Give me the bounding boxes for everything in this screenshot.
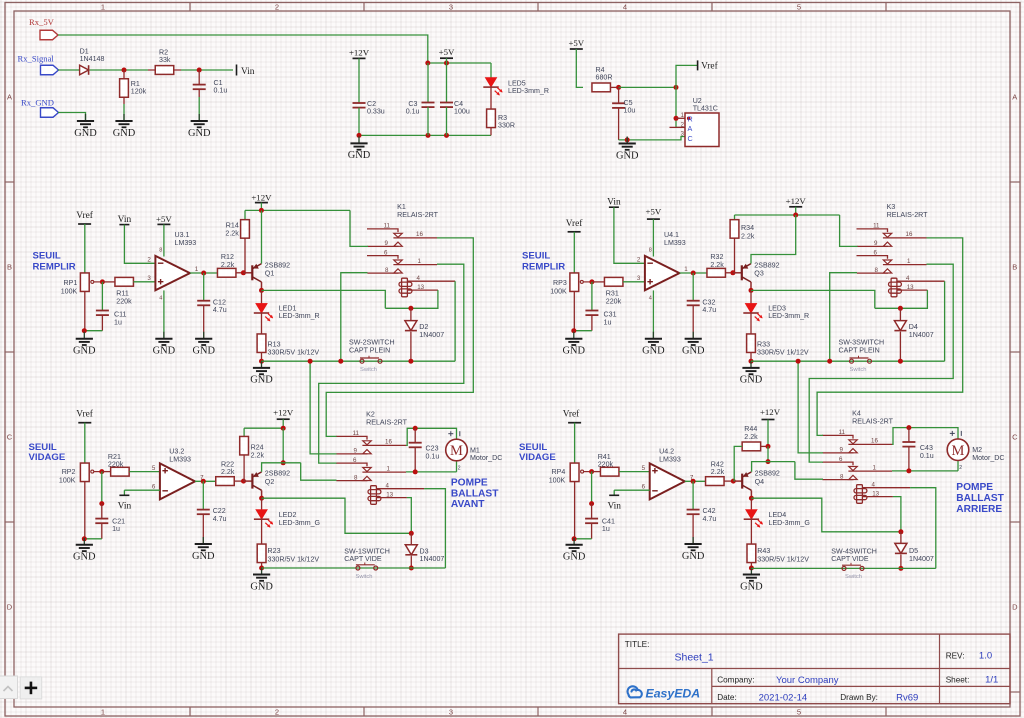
svg-text:1N4007: 1N4007: [909, 331, 934, 339]
wire switch line to K2 pin 9: [310, 361, 336, 454]
wire D1 to R1 node: [90, 69, 148, 71]
svg-text:1: 1: [101, 708, 105, 717]
svg-text:Vin: Vin: [241, 67, 255, 77]
UI panel toggle button: [0, 676, 18, 699]
wire K3 pin 8 to switch line: [830, 273, 857, 362]
LED LED1 LED-3mm_R: [261, 290, 263, 303]
svg-text:1/1: 1/1: [985, 675, 998, 686]
svg-text:D: D: [7, 603, 13, 612]
junction at U2 pin 1: [674, 116, 679, 121]
potentiometer RP3 100K: [570, 273, 579, 292]
wire Q1 collector to coil: [262, 290, 386, 308]
svg-text:A: A: [1012, 93, 1017, 102]
svg-text:2.2k: 2.2k: [744, 433, 758, 441]
wire Vref to RP4: [574, 423, 576, 464]
svg-text:220k: 220k: [116, 298, 132, 306]
+12V rail: [244, 427, 283, 429]
svg-text:EasyEDA: EasyEDA: [646, 686, 701, 700]
wire Vref to RP3: [573, 232, 575, 273]
power flag +5V (TL431): [570, 48, 583, 50]
svg-text:Vin: Vin: [607, 502, 621, 512]
wire K3 pin 16 to K4 pin 11: [817, 238, 963, 436]
wire right switch line to K4 pin 9: [798, 361, 823, 453]
switch line: [751, 360, 945, 362]
svg-text:VIDAGE: VIDAGE: [519, 452, 556, 463]
ground C42: [692, 537, 694, 544]
relay K3 contact 2: [857, 256, 888, 259]
svg-text:3: 3: [449, 708, 453, 717]
wire emitter to +12V: [261, 210, 263, 263]
junction wiper: [589, 469, 594, 474]
svg-text:8: 8: [385, 267, 389, 274]
svg-text:U4.2: U4.2: [659, 448, 674, 456]
svg-text:8: 8: [875, 267, 879, 274]
svg-text:R31: R31: [606, 290, 619, 298]
ground for Rx_GND: [85, 114, 87, 121]
svg-text:4.7u: 4.7u: [703, 515, 717, 523]
svg-text:13: 13: [907, 284, 914, 291]
svg-text:R32: R32: [710, 253, 723, 261]
svg-text:REV:: REV:: [946, 651, 965, 660]
wire Q4 collector to coil: [751, 498, 901, 532]
svg-text:Q4: Q4: [755, 478, 765, 486]
ground of power section: [358, 136, 360, 143]
wire K2 coil pin 13 down: [407, 498, 411, 534]
junction pin8-switch: [338, 359, 343, 364]
svg-text:13: 13: [417, 284, 424, 291]
junction C43 bottom: [906, 468, 911, 473]
diode D5 1N4007: [900, 532, 902, 544]
svg-text:100K: 100K: [61, 287, 78, 295]
resistor R43: [750, 519, 752, 544]
op-amp U4.1 LM393: [645, 256, 680, 290]
ground R33: [750, 361, 752, 368]
title block: [619, 634, 1010, 704]
svg-text:GND: GND: [73, 552, 96, 563]
bottom switch line (SW-4): [751, 567, 935, 569]
svg-text:LED2: LED2: [279, 511, 297, 519]
wire K4 coil pin 4 to switch line: [910, 488, 936, 569]
junction collector: [750, 490, 752, 498]
svg-text:Motor_DC: Motor_DC: [972, 454, 1004, 462]
svg-text:1N4007: 1N4007: [419, 331, 444, 339]
svg-text:0.33u: 0.33u: [367, 108, 385, 116]
wire op-amp output: [190, 272, 218, 274]
wire Rx_GND to ground: [58, 113, 86, 122]
motor M2 Motor_DC: [947, 439, 969, 461]
relay K2 contact 2: [336, 463, 367, 466]
svg-text:C41: C41: [602, 517, 615, 525]
svg-text:16: 16: [871, 438, 878, 445]
capacitor C11 1u: [101, 282, 103, 311]
svg-text:C11: C11: [114, 311, 127, 319]
svg-text:330R: 330R: [498, 122, 515, 130]
svg-text:2.2k: 2.2k: [741, 232, 755, 240]
svg-text:Date:: Date:: [717, 693, 737, 702]
svg-text:R12: R12: [221, 253, 234, 261]
svg-text:16: 16: [385, 439, 392, 446]
junction wiper: [99, 469, 104, 474]
svg-text:Rv69: Rv69: [896, 692, 918, 703]
UI zoom button +: [20, 677, 42, 699]
resistor R33: [750, 313, 752, 334]
svg-text:GND: GND: [740, 375, 763, 386]
wire emitter node: [767, 446, 769, 461]
svg-text:8: 8: [354, 475, 358, 482]
wire Rx_Signal to D1: [58, 69, 80, 71]
ground RP1: [83, 332, 85, 339]
svg-text:LED-3mm_R: LED-3mm_R: [508, 87, 549, 95]
resistor R14 2.2k: [244, 210, 246, 219]
svg-text:C43: C43: [920, 444, 933, 452]
svg-text:16: 16: [416, 231, 423, 238]
svg-text:5: 5: [152, 465, 156, 472]
svg-text:SW-1SWITCH: SW-1SWITCH: [344, 547, 390, 555]
svg-text:4: 4: [649, 296, 652, 302]
svg-text:R14: R14: [226, 221, 239, 229]
svg-text:+12V: +12V: [251, 193, 272, 203]
svg-text:2SB892: 2SB892: [755, 470, 780, 478]
junction R bottom: [749, 359, 754, 364]
svg-text:Rx_GND: Rx_GND: [21, 98, 54, 108]
capacitor C42 4.7u: [692, 481, 694, 509]
diode D1 1N4148: [80, 65, 89, 75]
svg-text:+5V: +5V: [568, 38, 584, 48]
junction wiper: [589, 279, 594, 284]
svg-text:2: 2: [959, 465, 962, 471]
svg-text:4: 4: [623, 3, 627, 12]
svg-text:ARRIERE: ARRIERE: [956, 504, 1002, 515]
svg-text:1: 1: [387, 466, 391, 473]
svg-text:R44: R44: [744, 425, 757, 433]
+12V rail: [735, 214, 840, 216]
svg-text:3: 3: [449, 3, 453, 12]
capacitor C41 1u: [591, 472, 593, 504]
svg-text:GND: GND: [740, 581, 763, 592]
wire RP3 bottom to ground: [573, 292, 575, 331]
svg-text:C23: C23: [426, 445, 439, 453]
bottom switch line (SW-1): [262, 567, 446, 569]
wire K4 pin 16 to motor M2 plus: [892, 428, 958, 445]
wire K3 coil pin 4 to switch line: [944, 281, 946, 361]
ground R13: [261, 361, 263, 368]
relay K4 contact 1: [822, 435, 853, 438]
svg-text:GND: GND: [192, 551, 215, 562]
svg-text:RELAIS-2RT: RELAIS-2RT: [852, 418, 894, 426]
wire Vin to op-amp pin 2: [614, 207, 645, 263]
junction pin8-switch right: [827, 359, 832, 364]
resistor R3 330R: [490, 87, 492, 109]
capacitor C1 0.1u: [198, 70, 200, 85]
svg-text:RELAIS-2RT: RELAIS-2RT: [887, 211, 929, 219]
junction switchline: [308, 359, 313, 364]
svg-text:LED-3mm_G: LED-3mm_G: [769, 519, 810, 527]
resistor R31 220k: [592, 281, 605, 283]
IC U2 TL431C: [685, 113, 719, 147]
svg-text:LED-3mm_R: LED-3mm_R: [279, 312, 320, 320]
svg-text:U3.1: U3.1: [175, 231, 190, 239]
resistor R42 2.2k: [706, 477, 725, 486]
svg-text:B: B: [7, 263, 12, 272]
ground C12: [203, 332, 205, 339]
svg-text:M: M: [450, 443, 463, 459]
junction collector: [749, 288, 754, 293]
resistor R44 2.2k (horizontal): [742, 442, 761, 451]
wire +5V to pin 8: [652, 219, 654, 256]
wire Vref to RP1: [84, 224, 86, 273]
svg-text:4: 4: [386, 483, 390, 490]
svg-text:GND: GND: [563, 346, 586, 357]
svg-text:5: 5: [797, 708, 801, 717]
resistor R23: [261, 519, 263, 544]
svg-text:LM393: LM393: [664, 239, 686, 247]
svg-text:GND: GND: [348, 150, 371, 161]
net flag Vin (U4.2): [614, 489, 650, 491]
svg-text:Company:: Company:: [717, 675, 754, 684]
svg-text:VIDAGE: VIDAGE: [29, 452, 66, 463]
svg-text:Motor_DC: Motor_DC: [470, 454, 502, 462]
ground TL431: [626, 137, 628, 144]
wire K1 pin 1 to K2 pin 6: [319, 264, 464, 463]
resistor R21 220k: [102, 471, 111, 473]
switch SW-2SWITCH CAPT PLEIN: [360, 359, 364, 363]
svg-text:2: 2: [637, 257, 641, 264]
wire K1 coil pin 13 down: [385, 290, 438, 308]
capacitor C23 0.1u: [414, 428, 416, 442]
svg-text:BALLAST: BALLAST: [956, 493, 1004, 504]
svg-text:R11: R11: [116, 290, 129, 298]
svg-text:4: 4: [906, 275, 910, 282]
svg-text:+5V: +5V: [439, 47, 455, 57]
svg-text:C22: C22: [213, 507, 226, 515]
svg-text:U3.2: U3.2: [169, 448, 184, 456]
svg-text:C31: C31: [604, 311, 617, 319]
ground op-amp pin 4: [652, 290, 654, 338]
capacitor C21 1u: [101, 472, 103, 504]
svg-text:3: 3: [147, 275, 151, 282]
ground C32: [692, 332, 694, 339]
resistor R2 33k: [148, 69, 181, 71]
wire RP4 bottom to ground: [574, 482, 576, 539]
op-amp U3.2 LM393: [160, 463, 195, 499]
svg-text:CAPT VIDE: CAPT VIDE: [831, 555, 869, 563]
svg-text:1: 1: [873, 465, 877, 472]
capacitor C31 1u: [591, 282, 593, 311]
svg-text:Rx_5V: Rx_5V: [29, 17, 55, 27]
svg-text:2.2k: 2.2k: [711, 468, 725, 476]
svg-text:9: 9: [874, 240, 878, 247]
wire collector: [261, 282, 263, 290]
junction base: [730, 270, 735, 275]
svg-text:1N4007: 1N4007: [909, 555, 934, 563]
svg-text:GND: GND: [563, 552, 586, 563]
svg-text:C: C: [688, 134, 693, 143]
svg-text:R33: R33: [757, 340, 770, 348]
svg-text:100K: 100K: [550, 287, 567, 295]
svg-text:0.1u: 0.1u: [920, 452, 934, 460]
wire emitter to +12V: [751, 215, 796, 264]
wire +5V to pin 8: [163, 224, 165, 256]
junction right switchline: [796, 359, 801, 364]
svg-text:100K: 100K: [59, 476, 76, 484]
svg-text:Switch: Switch: [355, 574, 372, 580]
junction D4 cathode: [898, 359, 903, 364]
wire node to Vref flag: [676, 65, 698, 87]
wire RP1 bottom to ground: [84, 292, 86, 331]
svg-text:SW-4SWITCH: SW-4SWITCH: [831, 547, 877, 555]
svg-text:CAPT VIDE: CAPT VIDE: [344, 555, 382, 563]
capacitor C4 100u: [446, 63, 448, 103]
svg-text:4: 4: [159, 296, 162, 302]
resistor R24 2.2k: [243, 428, 245, 436]
wire TL431 node down to pins: [676, 87, 681, 127]
svg-text:Vref: Vref: [76, 408, 93, 419]
net flag Vref: [697, 60, 699, 70]
svg-text:Vin: Vin: [118, 215, 132, 225]
svg-text:2SB892: 2SB892: [754, 261, 779, 269]
svg-text:SEUIL: SEUIL: [522, 250, 550, 261]
svg-text:C42: C42: [703, 507, 716, 515]
svg-text:Vref: Vref: [566, 218, 583, 229]
svg-text:+5V: +5V: [646, 207, 662, 217]
svg-text:6: 6: [839, 456, 843, 463]
wire +12V rail to K3 pin 9: [840, 215, 858, 246]
wire Q4 emitter node to K4 pin 8: [795, 462, 823, 480]
svg-text:RP4: RP4: [551, 468, 565, 476]
op-amp U3.1 LM393: [155, 256, 190, 290]
svg-text:POMPE: POMPE: [956, 482, 993, 493]
wire op-amp output: [195, 480, 216, 482]
junction base: [241, 270, 246, 275]
+12V rail: [245, 209, 350, 211]
svg-text:GND: GND: [153, 346, 176, 357]
svg-text:1N4007: 1N4007: [420, 555, 445, 563]
svg-text:R13: R13: [268, 340, 281, 348]
power flag +12V: [353, 57, 366, 59]
svg-text:M1: M1: [470, 446, 480, 454]
svg-text:CAPT PLEIN: CAPT PLEIN: [349, 347, 390, 355]
svg-text:4: 4: [872, 482, 876, 489]
svg-text:1: 1: [101, 3, 105, 12]
svg-text:Drawn By:: Drawn By:: [840, 693, 878, 702]
svg-text:3: 3: [637, 275, 641, 282]
resistor R1 120k: [123, 70, 125, 79]
svg-text:K2: K2: [366, 411, 375, 419]
svg-text:2.2k: 2.2k: [251, 452, 265, 460]
junction GND TL431: [625, 137, 630, 142]
wire R2 to Vin node: [181, 69, 233, 71]
svg-text:8: 8: [840, 474, 844, 481]
resistor R13: [261, 313, 263, 334]
svg-text:2SB892: 2SB892: [265, 470, 290, 478]
svg-text:13: 13: [872, 490, 879, 497]
svg-text:Rx_Signal: Rx_Signal: [18, 54, 55, 64]
junction wiper: [100, 279, 105, 284]
svg-text:K1: K1: [397, 203, 406, 211]
svg-text:LM393: LM393: [169, 456, 191, 464]
svg-text:GND: GND: [616, 150, 639, 161]
capacitor C43 0.1u: [908, 428, 910, 442]
svg-text:SW-3SWITCH: SW-3SWITCH: [839, 339, 885, 347]
wire Q3 collector to coil: [751, 290, 875, 308]
svg-text:GND: GND: [192, 346, 215, 357]
wire RP2 bottom to ground: [84, 482, 86, 539]
wire K1 pin 8 to switch line: [341, 273, 368, 362]
svg-text:120k: 120k: [131, 88, 147, 96]
relay K4 coil: [857, 485, 863, 504]
svg-text:D4: D4: [909, 323, 918, 331]
svg-text:220k: 220k: [598, 461, 614, 469]
junction output: [201, 271, 206, 276]
potentiometer RP1 100K: [80, 273, 89, 292]
LED LED3 LED-3mm_R: [750, 290, 752, 303]
net flag Vin (U3.2): [124, 489, 159, 491]
relay K1 contact 2: [367, 256, 398, 259]
svg-text:D3: D3: [420, 547, 429, 555]
svg-text:4.7u: 4.7u: [702, 306, 716, 314]
svg-text:AVANT: AVANT: [451, 499, 485, 510]
wire Q2 emitter node to K2 pin 8: [301, 463, 337, 480]
resistor R22 2.2k: [216, 477, 235, 486]
junction base: [731, 479, 736, 484]
ground R43: [750, 568, 752, 575]
junction output: [691, 479, 696, 484]
junction base: [241, 479, 246, 484]
wire Vin to op-amp pin 2: [124, 225, 155, 264]
wire +12V rail to K1 pin 9: [350, 210, 368, 246]
ground op-amp pin 4: [163, 290, 165, 338]
svg-text:1u: 1u: [114, 319, 122, 327]
svg-text:GND: GND: [642, 346, 665, 357]
svg-text:Switch: Switch: [845, 574, 862, 580]
svg-text:R: R: [688, 115, 693, 124]
op-amp U4.2 LM393: [650, 463, 685, 499]
svg-text:1u: 1u: [112, 525, 120, 533]
transistor Q3 2SB892 (PNP): [733, 272, 742, 274]
junction R4-C5: [616, 85, 621, 90]
wire K4 pin 1 to motor M2 minus: [892, 470, 958, 472]
capacitor C2 0.33u: [358, 58, 360, 103]
switch SW-3SWITCH CAPT PLEIN: [850, 359, 854, 363]
svg-text:K3: K3: [887, 203, 896, 211]
capacitor C22 4.7u: [202, 481, 204, 509]
svg-text:LM393: LM393: [175, 239, 197, 247]
svg-text:K4: K4: [852, 410, 861, 418]
ground rail of TL431: [619, 137, 685, 140]
svg-text:REMPLIR: REMPLIR: [522, 261, 565, 272]
svg-text:D2: D2: [419, 323, 428, 331]
svg-text:11: 11: [353, 430, 360, 437]
svg-text:REMPLIR: REMPLIR: [33, 261, 76, 272]
relay K1 contact 1: [367, 229, 398, 232]
svg-text:GND: GND: [188, 128, 211, 139]
top +5V rail: [428, 62, 491, 64]
capacitor C5 10u: [618, 87, 620, 103]
LED LED4 LED-3mm_G: [750, 498, 752, 509]
svg-text:2.2k: 2.2k: [221, 468, 235, 476]
svg-text:RP1: RP1: [63, 279, 77, 287]
capacitor C3 0.1u: [427, 63, 429, 103]
relay K3 coil: [891, 278, 897, 297]
svg-text:0.1u: 0.1u: [406, 108, 420, 116]
svg-text:1: 1: [907, 258, 911, 265]
junction at R1: [122, 68, 127, 73]
svg-text:C12: C12: [213, 298, 226, 306]
svg-text:4.7u: 4.7u: [213, 306, 227, 314]
wire collector: [750, 282, 752, 290]
junction at C1: [197, 68, 202, 73]
svg-text:5: 5: [797, 3, 801, 12]
